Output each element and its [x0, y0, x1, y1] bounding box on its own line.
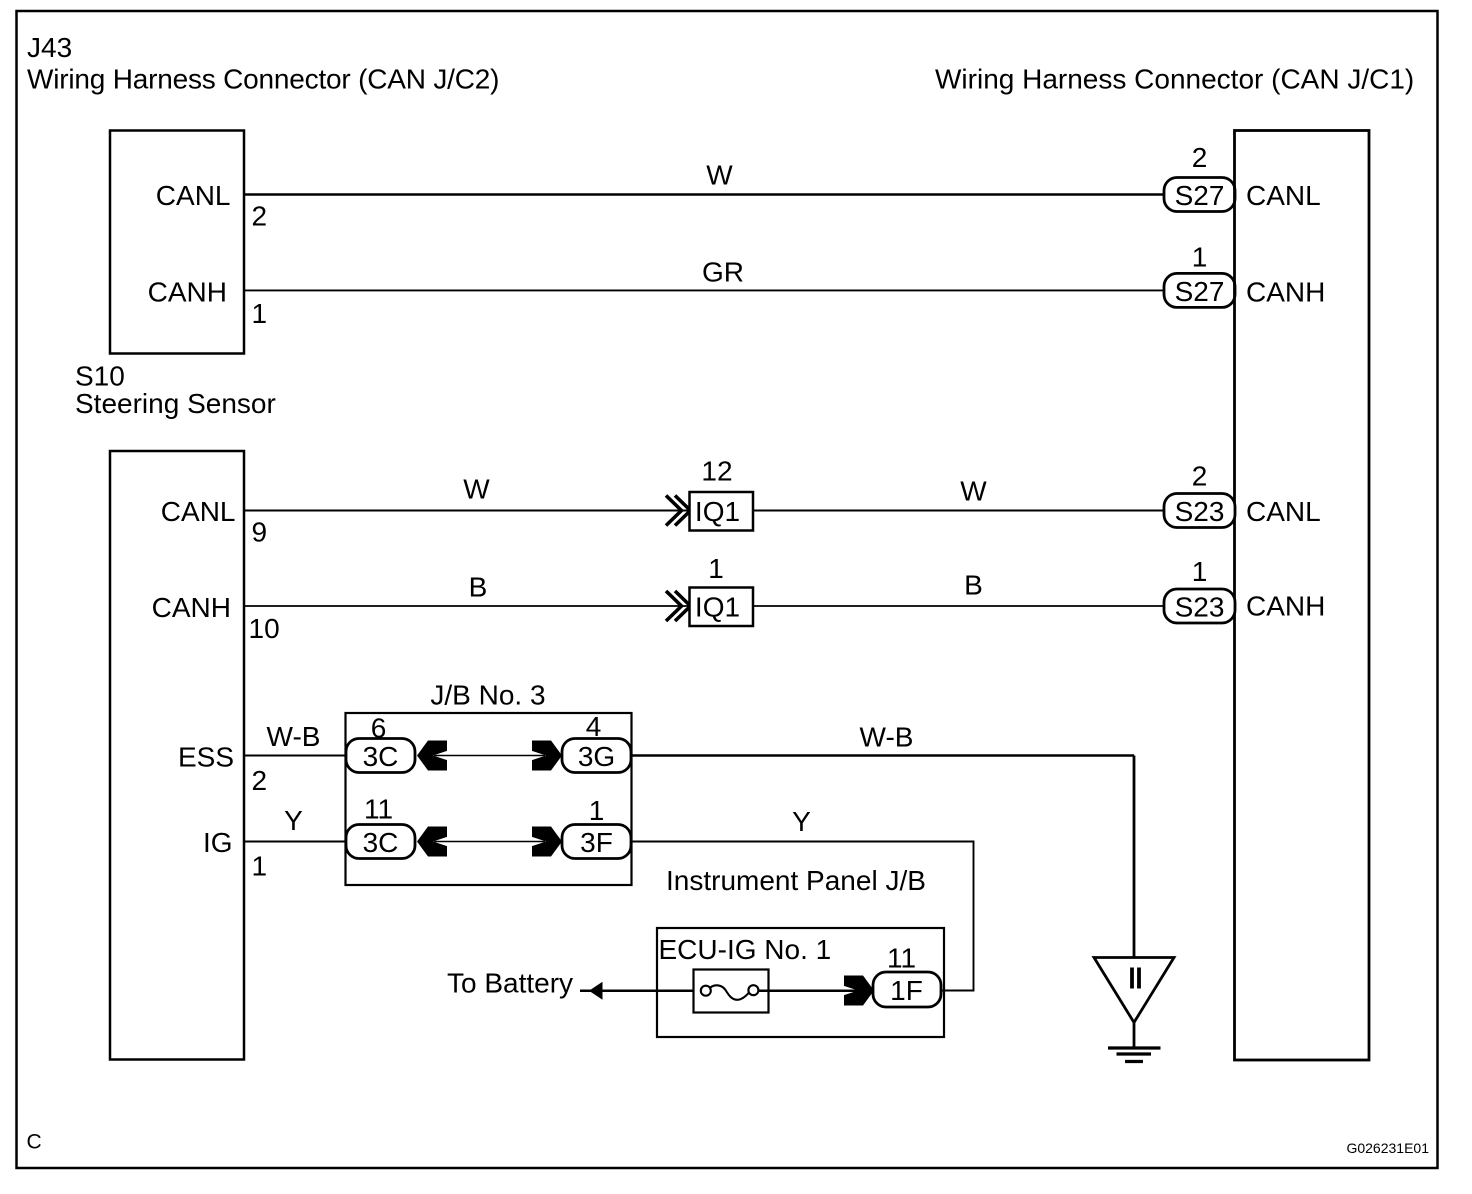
fuse ECU-IG No. 1 box	[694, 970, 769, 1013]
svg-text:1: 1	[252, 298, 268, 329]
svg-text:1F: 1F	[890, 975, 923, 1006]
svg-text:W: W	[463, 474, 490, 505]
terminal 1F	[873, 972, 941, 1007]
connector S27 terminal (CANH)	[1164, 273, 1235, 307]
svg-text:11: 11	[364, 794, 393, 825]
svg-text:Instrument Panel J/B: Instrument Panel J/B	[666, 865, 926, 896]
svg-text:2: 2	[1192, 461, 1208, 492]
svg-text:12: 12	[701, 456, 732, 487]
chevron marks into IQ1 (row CANL)	[666, 496, 691, 526]
arrow right (J/B row1)	[532, 741, 562, 771]
fuse left contact circle	[701, 986, 711, 996]
svg-text:W-B: W-B	[267, 721, 321, 752]
svg-text:Steering Sensor: Steering Sensor	[75, 388, 276, 419]
ground stem	[1133, 1023, 1136, 1049]
wire W-B vertical to ground	[1133, 756, 1136, 958]
ground bar 3	[1125, 1060, 1143, 1063]
arrow left (J/B row2)	[417, 827, 447, 857]
svg-text:CANH: CANH	[1246, 277, 1325, 308]
svg-text:2: 2	[252, 765, 268, 796]
svg-text:S23: S23	[1175, 592, 1225, 623]
svg-text:1: 1	[708, 553, 724, 584]
svg-text:To Battery: To Battery	[447, 968, 573, 999]
svg-text:Wiring Harness Connector (CAN: Wiring Harness Connector (CAN J/C1)	[935, 64, 1414, 95]
arrow right (J/B row2)	[532, 827, 562, 857]
svg-text:3F: 3F	[580, 827, 613, 858]
connector S23 terminal (CANH)	[1164, 589, 1235, 623]
wire inside J/B row1	[434, 755, 545, 757]
svg-text:S10: S10	[75, 361, 125, 392]
arrowhead to battery	[589, 982, 603, 1000]
svg-text:9: 9	[252, 517, 268, 548]
svg-text:B: B	[964, 570, 983, 601]
wire to battery	[580, 990, 702, 993]
svg-text:3C: 3C	[363, 827, 399, 858]
wire GR (J43 CANH to S27)	[245, 289, 1165, 291]
connector IQ1 box (row CANL)	[690, 492, 754, 531]
terminal 3F	[562, 825, 631, 859]
ground bar 2	[1117, 1052, 1152, 1055]
terminal 3C (ESS row)	[346, 739, 415, 773]
svg-text:W: W	[960, 476, 987, 507]
wire Y into 1F	[940, 990, 974, 992]
svg-text:IG: IG	[203, 827, 233, 858]
arrow left (J/B row1)	[417, 741, 447, 771]
wire W (IQ1 to S23)	[754, 509, 1166, 511]
connector CAN J/C1 box	[1235, 131, 1370, 1061]
svg-text:ECU-IG No. 1: ECU-IG No. 1	[659, 934, 832, 965]
ground triangle	[1094, 958, 1174, 1023]
svg-text:IQ1: IQ1	[695, 496, 740, 527]
wire W (J43 CANL to S27)	[245, 193, 1165, 196]
svg-text:CANH: CANH	[1246, 591, 1325, 622]
wire Y (3F to down)	[631, 841, 974, 843]
wire Y vertical down	[973, 842, 975, 991]
svg-text:W-B: W-B	[860, 722, 914, 753]
wire W (S10 CANL to IQ1)	[245, 509, 689, 511]
svg-text:J/B No. 3: J/B No. 3	[430, 680, 545, 711]
wire B (IQ1 to S23)	[754, 605, 1166, 607]
svg-text:J43: J43	[27, 32, 72, 63]
svg-text:3G: 3G	[578, 741, 615, 772]
wire fuse to 1F	[758, 990, 859, 993]
svg-text:10: 10	[249, 613, 280, 644]
connector J43 box (CAN J/C2)	[110, 131, 244, 354]
connector IQ1 box (row CANH)	[690, 588, 754, 627]
svg-text:W: W	[706, 160, 733, 191]
svg-text:G026231E01: G026231E01	[1346, 1140, 1429, 1156]
steering sensor S10 box	[110, 451, 244, 1060]
terminal 3C (IG row)	[346, 825, 415, 859]
wire W-B (ESS to 3C)	[245, 755, 347, 757]
ground mark II right bar	[1137, 968, 1141, 989]
svg-text:CANL: CANL	[161, 496, 236, 527]
ground mark II left bar	[1130, 968, 1134, 989]
svg-text:ESS: ESS	[178, 742, 234, 773]
svg-text:11: 11	[887, 943, 916, 974]
svg-text:B: B	[469, 572, 488, 603]
wire inside J/B row2	[434, 841, 545, 843]
svg-text:S27: S27	[1175, 276, 1225, 307]
fuse element wavy line	[710, 985, 749, 1000]
svg-text:GR: GR	[702, 257, 744, 288]
connector S23 terminal (CANL)	[1164, 494, 1235, 528]
wire W-B (3G to ground)	[631, 754, 1134, 756]
svg-text:2: 2	[252, 201, 268, 232]
wire Y (IG to 3C)	[245, 841, 347, 843]
svg-text:CANL: CANL	[1246, 180, 1321, 211]
terminal 3G	[562, 739, 631, 773]
chevron marks into IQ1 (row CANH)	[666, 591, 691, 621]
svg-text:S23: S23	[1175, 496, 1225, 527]
svg-text:1: 1	[252, 851, 268, 882]
svg-text:CANH: CANH	[152, 592, 231, 623]
svg-text:S27: S27	[1175, 180, 1225, 211]
svg-text:1: 1	[1192, 242, 1208, 273]
svg-text:C: C	[27, 1131, 42, 1154]
svg-text:IQ1: IQ1	[695, 592, 740, 623]
wire B (S10 CANH to IQ1)	[245, 605, 689, 607]
arrow right (into 1F)	[844, 976, 874, 1006]
svg-text:3C: 3C	[363, 741, 399, 772]
fuse right contact circle	[748, 985, 758, 995]
ground bar 1	[1108, 1046, 1161, 1049]
svg-text:Y: Y	[792, 806, 811, 837]
svg-text:2: 2	[1192, 142, 1208, 173]
instrument panel J/B box	[657, 928, 944, 1037]
junction block J/B No. 3 box	[346, 713, 632, 885]
svg-text:1: 1	[589, 795, 605, 826]
svg-text:CANL: CANL	[156, 180, 231, 211]
svg-text:Wiring Harness Connector (CAN: Wiring Harness Connector (CAN J/C2)	[27, 64, 499, 95]
svg-text:Y: Y	[284, 805, 303, 836]
connector S27 terminal (CANL)	[1164, 178, 1235, 212]
svg-text:CANH: CANH	[148, 277, 227, 308]
svg-text:CANL: CANL	[1246, 496, 1321, 527]
svg-text:1: 1	[1192, 556, 1208, 587]
